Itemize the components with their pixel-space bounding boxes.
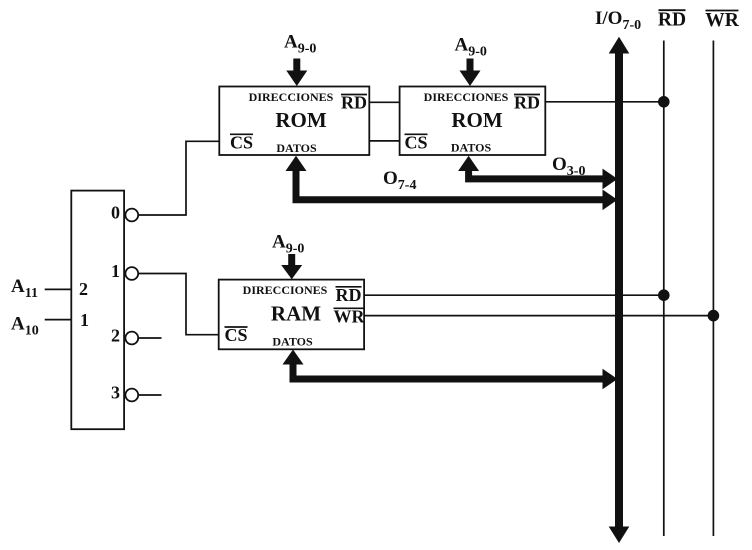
bus arrow RAM DATOS to I/O	[283, 350, 618, 390]
svg-text:DATOS: DATOS	[451, 141, 492, 155]
svg-text:CS: CS	[224, 325, 247, 345]
wire output1 to RAM CS	[138, 274, 219, 335]
svg-text:DIRECCIONES: DIRECCIONES	[243, 283, 328, 297]
svg-text:ROM: ROM	[275, 108, 327, 132]
ROM U3 box	[400, 87, 546, 156]
svg-text:RD: RD	[341, 93, 367, 113]
bus arrow A9-0 into ROM U2	[286, 59, 307, 87]
svg-text:WR: WR	[705, 10, 740, 31]
svg-text:RAM: RAM	[271, 302, 321, 326]
bus I/O7-0 vertical (bidirectional)	[609, 37, 630, 543]
svg-text:2: 2	[111, 326, 120, 346]
inverter bubble output 0	[125, 209, 138, 222]
svg-text:RD: RD	[658, 10, 686, 31]
inverter bubble output 2	[125, 332, 138, 345]
wire RAM WR to WR net	[364, 315, 713, 317]
wire A11 to decoder	[45, 288, 72, 290]
svg-text:RD: RD	[514, 93, 540, 113]
svg-text:1: 1	[80, 310, 89, 330]
wire RAM RD to RD net	[364, 294, 664, 296]
bus arrow A9-0 into ROM U3	[460, 59, 481, 87]
wire stub output3	[138, 394, 161, 396]
inverter bubble output 3	[125, 389, 138, 402]
svg-text:DIRECCIONES: DIRECCIONES	[424, 90, 509, 104]
decoder U1	[71, 191, 124, 430]
svg-text:ROM: ROM	[451, 108, 503, 132]
svg-text:RD: RD	[336, 285, 362, 305]
RAM U4 box	[219, 280, 364, 350]
bus arrow ROM U3 DATOS to I/O (O3-0)	[458, 156, 617, 189]
wire A10 to decoder	[45, 319, 72, 321]
wire ROM U2 RD to ROM U3	[369, 101, 399, 103]
svg-text:WR: WR	[334, 306, 366, 326]
svg-text:2: 2	[79, 279, 88, 299]
svg-text:CS: CS	[230, 132, 253, 152]
svg-text:3: 3	[111, 383, 120, 403]
junction dot WR net / RAM WR	[708, 310, 720, 322]
wire ROM U3 RD to RD net	[545, 101, 664, 103]
svg-text:CS: CS	[404, 132, 427, 152]
junction dot RD net / ROM RD	[658, 96, 670, 108]
wire stub output2	[138, 337, 161, 339]
wire output0 to ROM1 CS	[138, 141, 219, 215]
svg-text:0: 0	[111, 203, 120, 223]
junction dot RD net / RAM RD	[658, 289, 670, 301]
svg-text:DIRECCIONES: DIRECCIONES	[249, 90, 334, 104]
svg-text:DATOS: DATOS	[276, 141, 317, 155]
wire ROM U2 CS to ROM U3 CS	[369, 140, 399, 142]
inverter bubble output 1	[125, 267, 138, 280]
WR net vertical wire	[712, 41, 714, 537]
bus arrow A9-0 into RAM U4	[281, 254, 302, 279]
ROM U2 box	[219, 87, 369, 156]
RD net vertical wire	[663, 41, 665, 537]
svg-text:DATOS: DATOS	[272, 335, 313, 349]
svg-text:1: 1	[111, 261, 120, 281]
bus arrow ROM U2 DATOS to I/O (O7-4)	[286, 156, 618, 210]
